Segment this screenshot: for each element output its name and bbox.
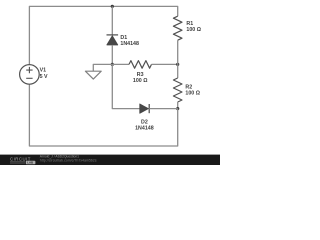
- resistor R1 zigzag: [173, 16, 182, 40]
- svg-text:1N4148: 1N4148: [120, 41, 139, 47]
- svg-text:http://circuitlab.com/c/7h7x4a: http://circuitlab.com/c/7h7x4am562s: [40, 159, 97, 163]
- wire node M right to R3 left lead: [112, 63, 129, 65]
- svg-text:100 Ω: 100 Ω: [133, 78, 148, 84]
- resistor R2 zigzag: [173, 78, 182, 102]
- svg-text:1N4148: 1N4148: [135, 126, 154, 132]
- node M junction dot: [111, 63, 114, 66]
- wire D1 anode down to node M: [111, 45, 113, 65]
- wire D2 cathode to node B: [149, 108, 178, 110]
- wire R3 right lead to node R: [152, 63, 178, 65]
- node B junction dot: [176, 107, 179, 110]
- wire node T down to D1 cathode: [111, 6, 113, 35]
- CircuitLab logo lines and LAB: [10, 161, 35, 165]
- node T junction dot: [111, 5, 114, 8]
- svg-text:V1: V1: [40, 68, 47, 74]
- wire bottom loop node B down, across bottom, up to V1 bottom: [29, 84, 177, 146]
- wire R2 bottom to node B: [177, 102, 179, 109]
- resistor R3 zigzag: [129, 61, 152, 69]
- ground symbol: [85, 71, 101, 79]
- svg-text:5 V: 5 V: [40, 74, 48, 80]
- diode D2: [140, 104, 149, 113]
- wire R1 bottom to node R: [177, 40, 179, 64]
- svg-text:LAB: LAB: [27, 161, 33, 165]
- node R junction dot: [176, 63, 179, 66]
- wire node R to R2 top: [177, 64, 179, 78]
- wire from V1 top up and across top to node T: [29, 6, 112, 64]
- voltage source V1: [20, 65, 40, 85]
- svg-text:100 Ω: 100 Ω: [186, 27, 201, 33]
- wire node M down and right to D2 anode: [112, 64, 139, 108]
- wire top right from node T to R1 top: [112, 6, 177, 16]
- wire node M left to ground stub: [93, 64, 112, 71]
- footer bar: [0, 155, 220, 165]
- diode D1: [107, 35, 119, 45]
- svg-text:100 Ω: 100 Ω: [185, 90, 200, 96]
